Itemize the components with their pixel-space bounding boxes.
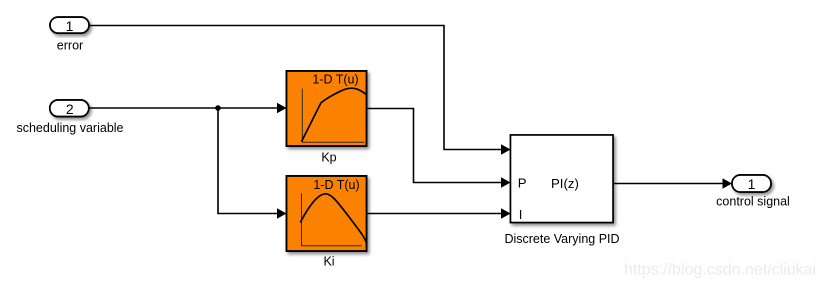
svg-text:I: I	[519, 207, 523, 222]
label: Discrete Varying PID	[504, 232, 619, 246]
wire: error port to PID input u	[89, 26, 511, 155]
svg-text:1: 1	[66, 18, 74, 34]
svg-text:Ki: Ki	[323, 255, 334, 269]
label: scheduling variable	[16, 121, 123, 135]
svg-text:error: error	[57, 39, 83, 53]
Ki icon curve	[300, 194, 366, 243]
wire: Kp output to PID input P	[367, 109, 511, 188]
svg-text:PI(z): PI(z)	[551, 176, 579, 191]
inport 1 (error)	[50, 17, 89, 34]
svg-text:Kp: Kp	[321, 151, 336, 165]
svg-text:P: P	[518, 176, 527, 191]
svg-text:1: 1	[748, 176, 756, 192]
Kp icon axes	[302, 89, 364, 143]
lookup table block Ki	[287, 176, 367, 251]
outport 1 (control signal)	[732, 175, 771, 192]
svg-text:scheduling variable: scheduling variable	[16, 121, 123, 135]
label: control signal	[716, 195, 790, 209]
svg-text:Discrete Varying PID: Discrete Varying PID	[504, 232, 619, 246]
PID controller block U1 (Discrete Varying PID)	[511, 135, 614, 223]
svg-text:2: 2	[66, 101, 74, 117]
Ki icon axes	[302, 193, 362, 246]
svg-text:1-D T(u): 1-D T(u)	[313, 178, 359, 192]
svg-text:1-D T(u): 1-D T(u)	[312, 73, 358, 87]
svg-text:control signal: control signal	[716, 195, 790, 209]
watermark: https://blog.csdn.net/cliukai	[624, 262, 816, 279]
wire: PID output to control signal port	[613, 178, 732, 188]
label: error	[57, 39, 83, 53]
lookup table block Kp	[287, 71, 367, 146]
label: Kp	[321, 151, 336, 165]
svg-text:https://blog.csdn.net/cliukai: https://blog.csdn.net/cliukai	[624, 262, 816, 279]
wire: scheduling variable to Kp	[89, 103, 287, 113]
wire: junction branch to Ki	[218, 108, 287, 219]
Kp icon curve	[302, 88, 367, 141]
label: Ki	[323, 255, 334, 269]
inport 2 (scheduling variable)	[50, 100, 89, 117]
wire: Ki output to PID input I	[367, 208, 511, 218]
junction node on scheduling variable wire	[215, 105, 221, 111]
